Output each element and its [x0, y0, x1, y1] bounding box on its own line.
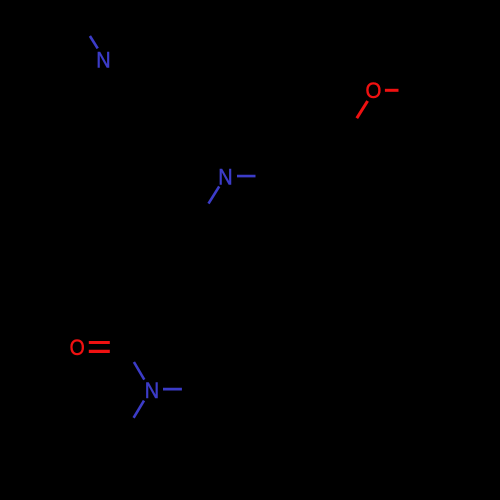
wire: half-bond N3 up-left to carbonyl carbon	[134, 362, 144, 380]
wire: half-bond N2 down-left	[209, 186, 220, 203]
wire: half-bond N3 to right carbon	[163, 388, 182, 391]
wire: C=O double bond upper half-line	[89, 341, 110, 344]
wire: half-bond N2 to right carbon	[237, 175, 256, 178]
svg-text:O: O	[365, 78, 381, 103]
wire: half-bond N3 down-left carbon	[134, 401, 144, 418]
svg-text:O: O	[70, 335, 85, 360]
wire: half-bond O1 to ring carbon (down-left)	[357, 101, 368, 118]
svg-text:N: N	[145, 378, 159, 403]
svg-text:N: N	[96, 47, 110, 72]
wire: C=O double bond lower half-line	[89, 350, 110, 353]
svg-text:N: N	[218, 164, 232, 189]
wire: half-bond O1 to methyl (right)	[385, 89, 399, 92]
wire: half-bond methyl to N1	[90, 36, 98, 48]
